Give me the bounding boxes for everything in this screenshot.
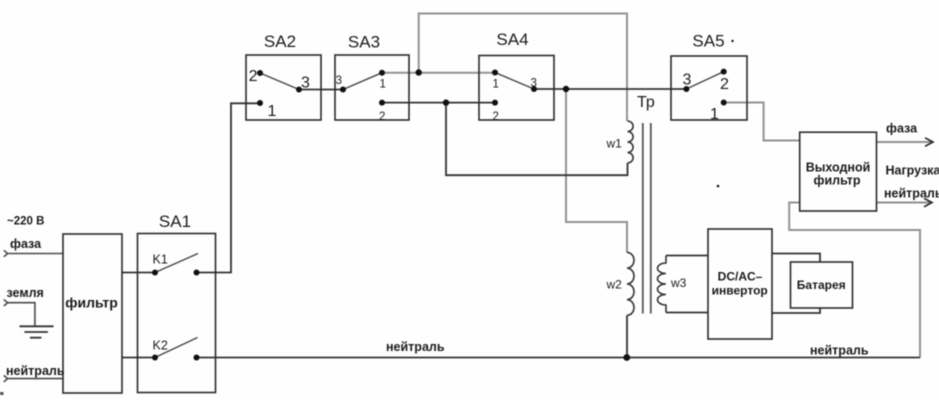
svg-text:фаза: фаза xyxy=(886,122,918,136)
svg-text:1: 1 xyxy=(380,79,386,91)
svg-text:K2: K2 xyxy=(153,339,168,353)
svg-text:SA1: SA1 xyxy=(159,212,191,231)
svg-text:1: 1 xyxy=(493,79,499,91)
svg-text:2: 2 xyxy=(249,68,258,85)
svg-text:3: 3 xyxy=(336,75,342,87)
svg-text:3: 3 xyxy=(683,72,692,89)
svg-text:нейтраль: нейтраль xyxy=(884,187,939,201)
svg-text:K1: K1 xyxy=(153,253,168,267)
svg-text:земля: земля xyxy=(7,286,44,300)
svg-text:1: 1 xyxy=(710,106,719,123)
svg-text:фильтр: фильтр xyxy=(814,174,861,188)
svg-text:1: 1 xyxy=(268,103,277,120)
svg-text:фильтр: фильтр xyxy=(65,295,118,311)
svg-text:3: 3 xyxy=(301,75,310,92)
svg-text:нейтраль: нейтраль xyxy=(6,364,65,378)
svg-text:нейтраль: нейтраль xyxy=(810,344,869,358)
svg-text:Нагрузка: Нагрузка xyxy=(886,164,939,178)
svg-text:w2: w2 xyxy=(606,278,623,292)
svg-text:SA2: SA2 xyxy=(264,32,296,51)
svg-text:SA4: SA4 xyxy=(496,30,528,49)
svg-text:~220 В: ~220 В xyxy=(7,216,44,228)
svg-text:SA3: SA3 xyxy=(348,33,380,52)
svg-text:2: 2 xyxy=(379,111,385,123)
svg-text:нейтраль: нейтраль xyxy=(386,340,445,354)
svg-text:DC/AC–: DC/AC– xyxy=(718,270,763,284)
svg-text:w1: w1 xyxy=(606,137,623,151)
svg-text:w3: w3 xyxy=(670,276,687,290)
svg-text:Тр: Тр xyxy=(637,94,655,111)
svg-text:Выходной: Выходной xyxy=(806,161,871,175)
svg-text:3: 3 xyxy=(531,78,537,90)
svg-text:инвертор: инвертор xyxy=(712,284,768,298)
svg-text:2: 2 xyxy=(493,111,499,123)
svg-text:Батарея: Батарея xyxy=(797,278,846,292)
svg-text:фаза: фаза xyxy=(10,237,42,251)
svg-text:2: 2 xyxy=(720,76,729,93)
svg-text:SA5: SA5 xyxy=(692,32,724,51)
